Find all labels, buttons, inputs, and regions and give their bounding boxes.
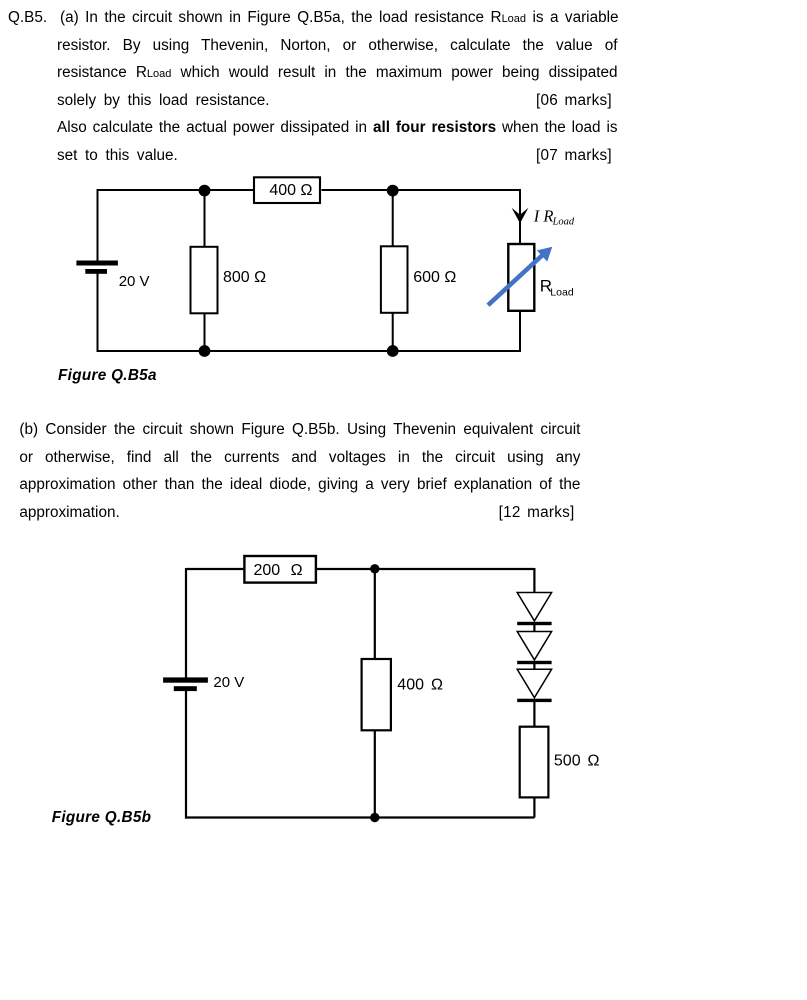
- figure caption Q.B5b: [52, 808, 152, 827]
- svg-text:20 V: 20 V: [213, 674, 244, 691]
- wire top-right (400 ohm to node B and R_Load): [322, 189, 521, 191]
- resistor 400 ohm (circuit b): [362, 659, 391, 730]
- wire right lower (R_Load to bottom rail): [519, 311, 521, 353]
- wire 800 ohm to bottom rail: [204, 313, 206, 351]
- resistor 400 ohm (series): [254, 177, 320, 203]
- wire 600 ohm to bottom rail: [392, 313, 394, 352]
- svg-text:500 Ω: 500 Ω: [554, 753, 600, 770]
- current arrowhead I R_Load: [512, 208, 529, 224]
- svg-text:RLoad: RLoad: [540, 277, 574, 299]
- resistor 800 ohm: [191, 247, 218, 313]
- resistor 600 ohm: [381, 246, 408, 312]
- wire node B to 600 ohm: [392, 190, 394, 247]
- diode D1 triangle: [517, 593, 551, 621]
- wire top-right (200 ohm to diodes): [315, 568, 534, 570]
- wire 400 ohm to bottom rail: [374, 730, 376, 818]
- wire diode D3 to 500 ohm: [533, 701, 535, 727]
- wire diode D1 to D2: [533, 624, 535, 632]
- variable resistor blue arrow shaft: [488, 255, 543, 306]
- resistor 500 ohm: [520, 727, 549, 798]
- wire left upper (battery top lead): [97, 189, 99, 261]
- wire bottom rail: [97, 350, 521, 352]
- svg-text:20 V: 20 V: [119, 273, 150, 290]
- node E (top of 400 ohm): [370, 564, 379, 573]
- wire node E to 400 ohm: [374, 569, 376, 660]
- svg-text:I RLoad: I RLoad: [533, 207, 575, 228]
- wire node A to 800 ohm: [204, 190, 206, 247]
- wire left lower (battery bottom lead): [97, 274, 99, 353]
- wire diode D2 to D3: [533, 663, 535, 670]
- svg-text:200 Ω: 200 Ω: [253, 562, 302, 579]
- node B (top of 600 ohm): [387, 185, 399, 197]
- wire left upper (battery top lead): [185, 568, 187, 678]
- wire right to diode D1: [533, 568, 535, 593]
- wire top-left (battery to 200 ohm): [186, 568, 244, 570]
- node C (bottom of 800 ohm): [199, 345, 211, 357]
- paragraph (a): [8, 8, 619, 27]
- diode D3 triangle: [517, 669, 551, 697]
- battery V1 20V long plate: [76, 261, 118, 266]
- node A (top of 800 ohm): [199, 185, 211, 197]
- wire top-left (battery + to node A): [98, 189, 254, 191]
- node D (bottom of 600 ohm): [387, 345, 399, 357]
- svg-text:400 Ω: 400 Ω: [397, 677, 443, 694]
- diode D2 cathode bar: [517, 661, 551, 664]
- battery V2 20V short plate: [174, 686, 197, 691]
- diode D2 triangle: [517, 632, 551, 660]
- diode D1 cathode bar: [517, 622, 551, 625]
- figure caption Q.B5a: [58, 366, 157, 385]
- wire left lower (battery bottom lead): [185, 691, 187, 819]
- svg-text:800 Ω: 800 Ω: [223, 269, 266, 286]
- battery V1 20V short plate: [85, 269, 107, 274]
- resistor R_Load (variable): [508, 244, 534, 311]
- node F (bottom of 400 ohm): [370, 813, 379, 822]
- resistor 200 ohm (series): [244, 556, 316, 583]
- paragraph (b): [19, 420, 580, 439]
- variable resistor blue arrow head: [537, 247, 552, 262]
- wire 500 ohm to bottom rail: [533, 797, 535, 818]
- wire bottom rail (circuit b): [185, 816, 534, 818]
- battery V2 20V long plate: [163, 677, 208, 682]
- svg-text:400 Ω: 400 Ω: [269, 182, 312, 199]
- wire right upper (through current arrow to R_Load): [519, 189, 521, 245]
- diode D3 cathode bar: [517, 699, 551, 702]
- svg-text:600 Ω: 600 Ω: [413, 269, 456, 286]
